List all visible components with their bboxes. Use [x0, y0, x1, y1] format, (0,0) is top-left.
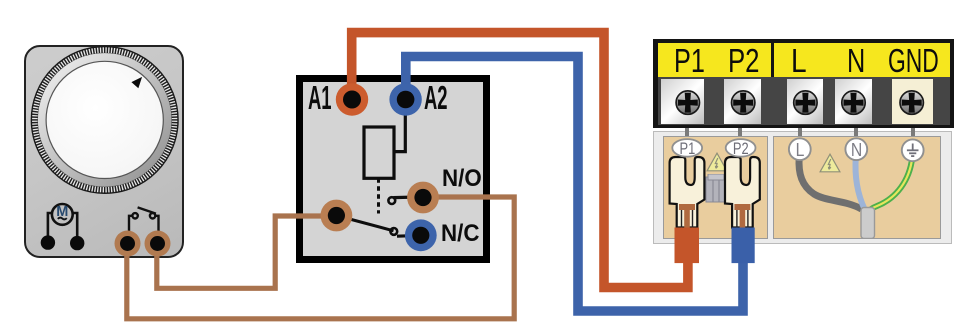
svg-text:N: N: [851, 139, 862, 161]
svg-text:P2: P2: [733, 141, 749, 159]
svg-text:P1: P1: [680, 141, 696, 159]
svg-text:L: L: [796, 139, 805, 161]
